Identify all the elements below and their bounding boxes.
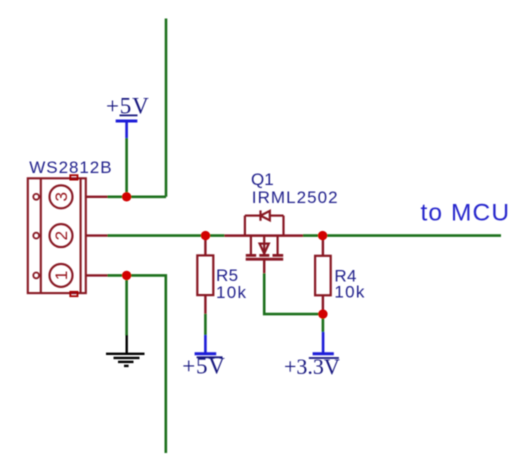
wire: pin1 junction to ground: [125, 275, 128, 335]
Q1 body lead: [263, 236, 265, 255]
wire: pin1 junction right and down: [127, 275, 166, 453]
svg-text:10k: 10k: [216, 283, 247, 302]
connector J WS2812B: [28, 175, 108, 296]
wire: pin3 stub to junction: [108, 196, 127, 199]
Q1 body diode cathode bar: [259, 210, 261, 220]
wire: +5V riser vertical from top: [165, 19, 168, 197]
svg-text:2: 2: [52, 231, 71, 240]
svg-text:1: 1: [52, 271, 71, 280]
connector inner left divider: [40, 178, 42, 293]
pin 2 small circle: [33, 233, 39, 239]
wire: riser to junction horizontal: [127, 196, 166, 199]
pin 3 small circle: [33, 194, 39, 200]
connector top tab: [70, 175, 77, 179]
pin 3 big circle: [50, 185, 73, 208]
Q1 channel bar left: [246, 254, 256, 257]
Q1 source lead: [277, 236, 279, 255]
Q1 body-diode loop left vertical: [244, 216, 246, 236]
Q1 drain lead: [250, 236, 252, 255]
junction at R4 top: [318, 231, 327, 240]
wire: gate down and right to junction: [264, 273, 323, 314]
wire: pin2 to MOSFET drain pin: [108, 234, 225, 237]
wire: MOSFET source pin to MCU: [303, 234, 501, 237]
Q1 channel bar right: [273, 254, 284, 257]
wire: R5 bottom to +5V: [204, 314, 207, 335]
power symbol +5V bottom: [182, 335, 225, 379]
resistor R5: [197, 236, 247, 314]
svg-text:10k: 10k: [334, 283, 365, 302]
svg-text:WS2812B: WS2812B: [29, 158, 112, 177]
junction at pin1/GND: [122, 271, 131, 280]
power symbol +5V top: [106, 93, 149, 138]
Q1 body-diode loop right vertical: [282, 216, 284, 236]
Q1 gate line: [246, 258, 284, 261]
svg-text:+3.3V: +3.3V: [284, 354, 340, 379]
Q1 body arrow: [260, 244, 269, 254]
Q1 body-diode loop top left horizontal: [245, 215, 261, 217]
resistor R4: [315, 236, 366, 315]
Q1 drain and source pins with internal wire: [224, 234, 303, 237]
pin 2 big circle: [50, 224, 73, 247]
pin 3 stub: [86, 196, 107, 198]
svg-text:Q1: Q1: [251, 170, 274, 189]
connector bottom tab: [70, 292, 77, 296]
ground: [106, 335, 145, 366]
junction at R5 top: [201, 231, 210, 240]
power symbol +3.3V: [284, 332, 340, 379]
svg-text:IRML2502: IRML2502: [252, 188, 339, 207]
Q1 body-diode loop top right horizontal: [270, 215, 284, 217]
svg-text:+5V: +5V: [182, 354, 225, 379]
wire: R4 junction to +3.3V: [322, 314, 325, 332]
Q1 channel bar middle: [259, 254, 269, 257]
pin 1 stub: [86, 274, 107, 276]
connector body outline: [28, 178, 86, 293]
wire: pin1 stub to junction: [108, 274, 127, 277]
transistor Q1 IRML2502: [224, 210, 303, 273]
pin 1 big circle: [50, 264, 73, 287]
pin 1 small circle: [33, 273, 39, 279]
junction at R4 bottom: [318, 309, 327, 318]
pin 2 stub: [86, 234, 107, 236]
connector inner right divider: [80, 178, 82, 293]
junction at pin3/+5V: [122, 192, 131, 201]
svg-text:to MCU: to MCU: [421, 199, 511, 226]
Q1 body diode triangle: [261, 211, 270, 220]
Q1 gate lead: [263, 259, 265, 273]
wire: +5V pin drop to junction: [125, 138, 128, 197]
svg-text:3: 3: [52, 192, 71, 201]
